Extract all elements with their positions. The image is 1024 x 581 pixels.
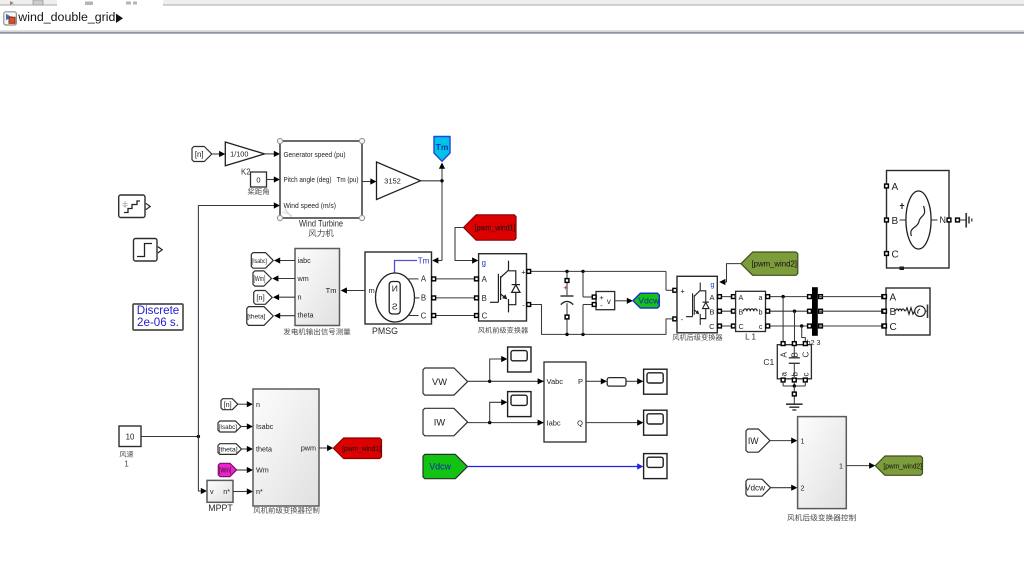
Goto tag [pwm_wind2] lower olive	[875, 456, 922, 475]
svg-text:A: A	[709, 293, 714, 302]
grid source block lower right	[886, 288, 930, 335]
Goto tag [Isabc]	[251, 253, 273, 269]
bus bar thick	[812, 287, 818, 336]
front converter block	[479, 254, 527, 321]
scope 4	[644, 410, 667, 435]
svg-text:B: B	[739, 308, 744, 317]
svg-text:+: +	[563, 283, 568, 292]
Wind Turbine block	[280, 141, 362, 218]
svg-text:c: c	[759, 322, 763, 331]
svg-text:wind_double_grid: wind_double_grid	[17, 10, 115, 24]
constant 0 pitch angle	[251, 172, 267, 187]
wire MPPT n* to controller	[233, 491, 247, 493]
svg-text:[pwm_wind2]: [pwm_wind2]	[751, 259, 797, 268]
svg-text:[pwm_wind1]: [pwm_wind1]	[342, 444, 381, 453]
svg-text:[n]: [n]	[256, 293, 264, 302]
svg-text:b: b	[759, 308, 763, 317]
signal builder block	[119, 195, 145, 218]
wire wm to [Wm]	[277, 278, 296, 280]
svg-text:[pwm_wind2]: [pwm_wind2]	[883, 461, 922, 470]
L1 three-phase inductor block	[736, 291, 766, 331]
wire theta to [theta]	[279, 315, 296, 317]
svg-text:1: 1	[801, 437, 805, 446]
svg-text:Vdcw: Vdcw	[745, 484, 765, 493]
wires L1 to bus bar	[766, 296, 811, 298]
svg-text:VW: VW	[432, 377, 447, 387]
svg-text:1/100: 1/100	[230, 150, 248, 159]
svg-text:Isabc: Isabc	[256, 422, 274, 431]
wire v to Vdcw goto	[615, 300, 628, 302]
svg-text:[Wm]: [Wm]	[254, 274, 266, 283]
step block	[134, 239, 158, 262]
svg-text:[Isabc]: [Isabc]	[252, 258, 267, 265]
label 风机后级变换器控制	[787, 514, 855, 521]
DC link capacitor	[566, 271, 568, 295]
wires bus bar to grid source	[819, 296, 886, 298]
three-phase source block top right	[887, 171, 950, 269]
svg-text:B: B	[892, 216, 899, 227]
svg-text:a: a	[779, 372, 788, 377]
scope 1	[508, 347, 531, 372]
front controller block	[253, 389, 319, 506]
wire rate block to scope 3	[626, 380, 638, 382]
svg-text:[theta]: [theta]	[218, 446, 237, 453]
svg-text:+: +	[521, 267, 526, 276]
IGBT diode icon rear converter	[686, 283, 709, 325]
browser/tab strip	[0, 0, 1024, 6]
voltage measurement block	[582, 271, 584, 297]
label 风速 1	[120, 451, 134, 458]
wire Tm(pu) to gain 3152	[362, 181, 371, 183]
gain K2 1/100	[225, 142, 264, 166]
svg-text:2e-06 s.: 2e-06 s.	[137, 316, 179, 329]
wire [pwm_wind2] to rear g	[724, 264, 742, 282]
svg-text:MPPT: MPPT	[208, 503, 233, 513]
svg-text:2: 2	[801, 484, 805, 493]
capacitor symbol inside C1	[793, 346, 795, 358]
wire 10 to junction up to Wind speed and down to MPPT	[141, 436, 198, 438]
gain 3152	[377, 162, 421, 200]
svg-text:C: C	[892, 249, 899, 260]
scope 5	[644, 454, 667, 479]
svg-text:a: a	[759, 293, 763, 302]
svg-text:P: P	[578, 377, 583, 386]
svg-text:m: m	[369, 286, 375, 295]
scope 3	[644, 369, 667, 394]
svg-text:B: B	[421, 294, 426, 303]
svg-text:S: S	[392, 302, 398, 312]
PMSG output stubs A B C	[409, 278, 419, 280]
wire pwm to [pwm_wind1]	[319, 447, 328, 449]
label 发电机输出信号测量	[283, 328, 350, 335]
svg-text:3152: 3152	[384, 176, 401, 185]
svg-text:Iabc: Iabc	[547, 418, 561, 427]
IGBT diode icon front converter	[490, 261, 520, 313]
svg-text:C: C	[709, 322, 715, 331]
svg-text:K2: K2	[241, 168, 251, 177]
svg-text:+: +	[681, 286, 686, 295]
rear converter block	[677, 276, 717, 333]
svg-text:A: A	[892, 182, 899, 193]
label 风力机	[309, 229, 334, 237]
rate transition small block	[607, 378, 626, 387]
svg-text:Wind speed (m/s): Wind speed (m/s)	[284, 201, 337, 210]
powergui block Discrete 2e-06 s.	[133, 304, 183, 330]
svg-text:v: v	[210, 487, 214, 496]
wire Q to scope 4	[586, 422, 638, 424]
svg-text:C1: C1	[763, 357, 774, 367]
blue wire Vdcw to scope 5	[468, 466, 638, 468]
From tag Vdcw green	[423, 454, 468, 478]
svg-text:B: B	[482, 294, 487, 303]
From tag [Isabc] lower	[218, 421, 241, 432]
From tag [theta] lower	[218, 444, 242, 455]
constant 10 wind speed	[119, 426, 141, 447]
Goto tag [n]	[254, 291, 273, 305]
wire VW to Vabc with scope branch	[468, 380, 544, 382]
svg-text:c: c	[802, 373, 811, 377]
C1 to ground wires	[782, 382, 784, 386]
Goto tag [pwm_wind1] upper red	[464, 215, 517, 240]
wires rear converter to L1	[717, 296, 735, 298]
label 风机后级变换器	[672, 334, 722, 341]
svg-text:[Isabc]: [Isabc]	[219, 424, 238, 431]
wire n to [n]	[278, 296, 296, 298]
svg-text:n: n	[298, 292, 302, 301]
svg-text:A: A	[421, 275, 427, 284]
wire 0 to Pitch angle	[267, 179, 275, 181]
PMSG machine ellipse	[376, 273, 415, 322]
source ellipse with sine	[906, 191, 931, 249]
svg-text:g: g	[710, 280, 714, 289]
svg-text:Pitch angle (deg): Pitch angle (deg)	[284, 175, 332, 184]
wire controller to [pwm_wind2]	[846, 465, 869, 467]
From tag IW lower	[746, 429, 770, 452]
C1 capacitor bank block	[777, 345, 811, 379]
Goto tag [theta]	[247, 307, 273, 326]
measurement subsystem block	[295, 249, 340, 326]
Goto tag [Wm]	[253, 271, 272, 286]
svg-text:g: g	[482, 258, 486, 267]
svg-text:A: A	[779, 352, 788, 358]
svg-text:Tm: Tm	[326, 286, 337, 295]
wire [pwm_wind1] to g of front converter	[455, 228, 472, 261]
wire gain to Wind Turbine	[265, 153, 275, 155]
wire [n] to gain K2	[212, 153, 220, 155]
ground right of N	[960, 219, 966, 221]
svg-text:Wind Turbine: Wind Turbine	[299, 218, 343, 228]
drop wires to C1	[782, 297, 784, 343]
svg-text:pwm: pwm	[301, 444, 316, 453]
svg-text:b: b	[791, 372, 800, 377]
rear controller block	[798, 417, 847, 509]
svg-text:N: N	[940, 215, 947, 225]
svg-text:n*: n*	[256, 487, 263, 496]
svg-text:10: 10	[126, 433, 135, 442]
Goto tag Tm cyan	[434, 137, 450, 162]
label 桨距角	[248, 188, 269, 195]
From tag IW	[423, 408, 468, 436]
svg-text:C: C	[890, 322, 897, 333]
svg-text:[n]: [n]	[224, 400, 232, 409]
wire iabc to [Isabc]	[278, 260, 295, 262]
From tag [n] lower	[221, 399, 238, 410]
wire P to rate block	[586, 380, 601, 382]
svg-text:C: C	[421, 311, 427, 320]
svg-text:PMSG: PMSG	[372, 326, 398, 336]
svg-text:N: N	[392, 284, 398, 294]
wire PMSG m to measurement Tm	[345, 290, 365, 292]
svg-text:v: v	[607, 297, 611, 306]
PMSG block	[365, 252, 432, 324]
scope 2	[508, 392, 531, 417]
From tag Vdcw lower	[746, 479, 771, 496]
PQ measurement block	[544, 362, 586, 442]
svg-text:IW: IW	[434, 417, 446, 427]
From tag [n] top	[192, 147, 212, 162]
svg-text:L 1: L 1	[745, 332, 756, 341]
From tag [Wm] magenta	[218, 463, 236, 476]
svg-text:1: 1	[124, 459, 128, 468]
svg-text:theta: theta	[256, 445, 272, 454]
wire IW to Iabc with scope branch	[468, 422, 544, 424]
svg-text:Q: Q	[577, 418, 583, 427]
DC bus bottom rail	[527, 305, 678, 335]
svg-text:IW: IW	[748, 436, 759, 446]
svg-text:Vdcw: Vdcw	[429, 462, 451, 472]
svg-text:n*: n*	[223, 487, 230, 496]
MPPT block	[207, 480, 233, 502]
svg-text:1: 1	[839, 462, 843, 471]
wire 3152 to junction, up to Tm goto, down to PMSG Tm	[421, 180, 443, 182]
From tag VW	[423, 368, 468, 395]
svg-text:B: B	[890, 307, 897, 318]
svg-text:C: C	[482, 311, 488, 320]
svg-text:Tm (pu): Tm (pu)	[337, 175, 359, 184]
svg-text:C: C	[802, 352, 811, 358]
svg-text:B: B	[791, 352, 800, 357]
wires PMSG to converter A B C	[432, 278, 479, 280]
svg-text:[theta]: [theta]	[247, 313, 265, 320]
Goto tag [pwm_wind1] lower red	[333, 438, 381, 459]
svg-text:Vabc: Vabc	[547, 377, 564, 386]
svg-text:[Wm]: [Wm]	[219, 467, 232, 474]
simulink model icon	[4, 12, 17, 25]
svg-text:0: 0	[256, 175, 260, 184]
svg-text:A: A	[890, 293, 897, 304]
breadcrumb bar	[0, 6, 1024, 32]
svg-text:Tm: Tm	[418, 256, 430, 265]
Goto tag Vdcw green	[633, 293, 659, 308]
svg-text:A: A	[482, 275, 488, 284]
toolbar separator line	[0, 32, 1024, 34]
svg-text:n: n	[256, 400, 260, 409]
PMSG Tm blue label and wire	[395, 261, 418, 274]
R-L source icon inside grid source	[896, 309, 905, 311]
svg-text:[n]: [n]	[195, 150, 204, 159]
svg-text:theta: theta	[298, 311, 314, 320]
svg-text:B: B	[709, 308, 714, 317]
svg-text:Wm: Wm	[256, 466, 269, 475]
ground symbol below C1	[786, 403, 803, 405]
label 风机前级变换器	[478, 327, 528, 334]
DC bus top rail	[527, 270, 667, 272]
svg-text:A: A	[739, 293, 744, 302]
svg-text:wm: wm	[297, 274, 309, 283]
Goto tag [pwm_wind2] upper olive	[741, 252, 798, 275]
svg-text:Vdcw: Vdcw	[638, 296, 660, 306]
label 风机前级变换器控制	[253, 507, 319, 514]
svg-text:[pwm_wind1]: [pwm_wind1]	[475, 223, 516, 232]
svg-text:C: C	[739, 322, 744, 331]
svg-text:iabc: iabc	[298, 256, 312, 265]
selection handles of Wind Turbine	[277, 138, 282, 143]
svg-text:Generator speed (pu): Generator speed (pu)	[284, 150, 346, 159]
svg-text:Tm: Tm	[436, 142, 449, 152]
